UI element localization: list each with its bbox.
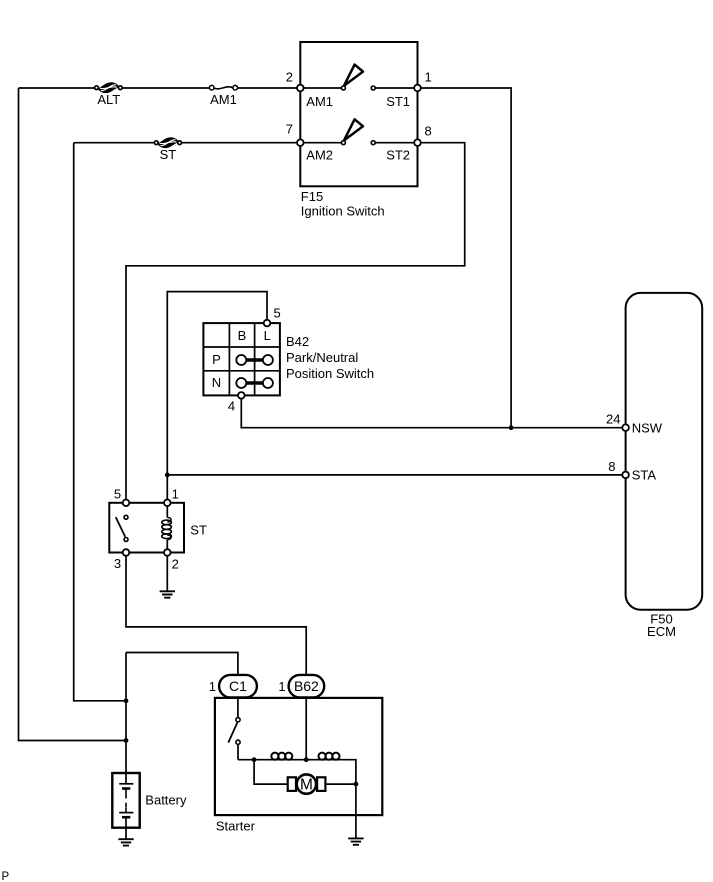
svg-text:Park/Neutral: Park/Neutral	[286, 350, 358, 365]
svg-text:AM1: AM1	[210, 92, 237, 107]
ignition pin 7 terminal	[297, 139, 304, 146]
wire motor branch	[254, 760, 356, 784]
relay coil	[162, 503, 172, 553]
junction battery/ALT wire	[124, 738, 129, 743]
svg-text:M: M	[300, 777, 313, 794]
relay pin 2 terminal	[164, 549, 171, 556]
svg-text:1: 1	[278, 679, 285, 694]
ECM pin 8 STA terminal	[622, 472, 629, 479]
svg-text:ST: ST	[190, 522, 207, 537]
wire STA from relay pin 1 vertical to ECM	[167, 474, 625, 476]
svg-text:Ignition Switch: Ignition Switch	[301, 204, 385, 219]
svg-text:B42: B42	[286, 334, 309, 349]
wire ALT row to ignition pin 2	[19, 87, 301, 89]
svg-text:N: N	[212, 375, 221, 390]
motor M1 body	[297, 774, 316, 793]
fusible link ST	[154, 138, 181, 162]
wire ignition internal row 1	[300, 87, 417, 89]
svg-text:2: 2	[172, 557, 179, 572]
junction coil row B62	[304, 757, 309, 762]
connector B62	[289, 675, 325, 698]
wire starter coil row	[238, 760, 356, 784]
wire battery feed and C1 branch	[126, 653, 238, 784]
svg-text:ECM: ECM	[647, 624, 676, 639]
junction STA/relay pin 1	[165, 473, 170, 478]
svg-text:1: 1	[172, 487, 179, 502]
svg-text:NSW: NSW	[632, 420, 663, 435]
ignition switch fixed contact row 2	[371, 141, 375, 145]
relay switch fixed contact bottom	[124, 538, 128, 542]
ignition switch lever pivot circle row 2	[341, 141, 345, 145]
motor M1 brush left	[288, 777, 296, 791]
junction NSW/ST1	[509, 425, 514, 430]
ignition switch wedge lever AM1	[344, 65, 363, 86]
svg-text:4: 4	[228, 399, 235, 414]
fusible link ALT	[95, 83, 123, 107]
svg-text:AM1: AM1	[306, 94, 333, 109]
svg-text:7: 7	[286, 122, 293, 137]
relay switch lever	[116, 517, 126, 537]
svg-text:ALT: ALT	[97, 92, 120, 107]
junction coil row left	[252, 757, 257, 762]
starter pull-in coil	[319, 753, 340, 760]
park/neutral switch B42 grid	[203, 323, 280, 395]
fuse AM1	[209, 85, 237, 106]
connector C1	[219, 675, 257, 698]
ignition switch F15 box	[300, 42, 417, 186]
svg-text:3: 3	[114, 556, 121, 571]
svg-text:ST: ST	[160, 147, 177, 162]
wire ST row to ignition pin 7	[74, 142, 301, 144]
ignition pin 1 terminal	[414, 85, 421, 92]
relay pin 3 terminal	[123, 549, 130, 556]
ignition switch lever pivot circle row 1	[341, 86, 345, 90]
svg-text:L: L	[264, 328, 271, 343]
svg-text:8: 8	[608, 459, 615, 474]
wire C1 to starter switch	[237, 698, 239, 718]
starter hold-in coil	[271, 753, 292, 760]
wire relay pin 2 to ground	[166, 553, 168, 592]
svg-text:B62: B62	[294, 678, 319, 694]
svg-text:ST2: ST2	[386, 147, 410, 162]
svg-text:Starter: Starter	[216, 819, 256, 834]
ECM F50 body	[626, 293, 703, 610]
B42 N-row contact circles and bar	[247, 381, 263, 384]
svg-text:24: 24	[606, 411, 620, 426]
ignition pin 8 terminal	[414, 139, 421, 146]
svg-text:Battery: Battery	[145, 793, 187, 808]
starter switch contact bottom	[236, 740, 240, 744]
svg-text:F15: F15	[301, 189, 323, 204]
wire battery negative to ground	[125, 817, 127, 839]
starter switch contact top	[236, 718, 240, 722]
svg-text:5: 5	[114, 487, 121, 502]
svg-text:Position Switch: Position Switch	[286, 366, 374, 381]
wire B42 pin 4 to ECM NSW	[241, 395, 625, 427]
svg-text:AM2: AM2	[306, 147, 333, 162]
ignition pin 2 terminal	[297, 85, 304, 92]
junction battery/ST wire	[124, 698, 129, 703]
wire ST2 to relay pin 5	[126, 143, 465, 503]
svg-text:C1: C1	[229, 678, 247, 694]
ignition switch wedge lever AM2	[344, 119, 363, 140]
wire B42 pin 5 to relay pin 1	[167, 292, 267, 503]
starter switch lever	[228, 722, 237, 742]
wire B62 to coil row junction	[305, 698, 307, 760]
svg-text:ST1: ST1	[386, 94, 410, 109]
svg-text:2: 2	[286, 70, 293, 85]
wire ignition internal row 2	[300, 142, 417, 144]
battery box	[112, 773, 139, 828]
svg-text:P: P	[212, 352, 221, 367]
svg-text:5: 5	[273, 306, 280, 321]
wire left vertical from ALT down to battery junction	[19, 88, 127, 741]
svg-text:STA: STA	[632, 468, 657, 483]
ignition switch fixed contact row 1	[371, 86, 375, 90]
relay pin 5 terminal	[123, 500, 130, 507]
starter relay ST box	[109, 503, 184, 553]
relay switch fixed contact top	[124, 515, 128, 519]
svg-text:8: 8	[425, 124, 432, 139]
wire ST1 to NSW junction	[418, 88, 512, 428]
ECM pin 24 NSW terminal	[622, 424, 629, 431]
svg-text:P: P	[2, 871, 10, 882]
B42 pin 5 terminal	[264, 320, 271, 327]
B42 P-row contact circles and bar	[247, 358, 263, 361]
wire relay pin 3 to B62 connector	[126, 553, 306, 676]
wire left vertical 2 from ST down to battery junction	[74, 143, 126, 701]
svg-text:B: B	[238, 328, 247, 343]
motor M1 brush right	[317, 777, 325, 791]
relay pin 1 terminal	[164, 500, 171, 507]
ground (battery)	[118, 839, 133, 845]
svg-text:1: 1	[425, 70, 432, 85]
B42 pin 4 terminal	[238, 392, 245, 399]
starter box	[215, 698, 382, 815]
ground (starter)	[348, 838, 363, 844]
wire starter motor to ground	[355, 784, 357, 838]
battery plates	[119, 784, 133, 817]
ground (relay pin 2)	[160, 591, 175, 597]
wire starter switch to coil row	[237, 744, 239, 759]
svg-text:1: 1	[209, 679, 216, 694]
junction motor/ground	[354, 782, 359, 787]
